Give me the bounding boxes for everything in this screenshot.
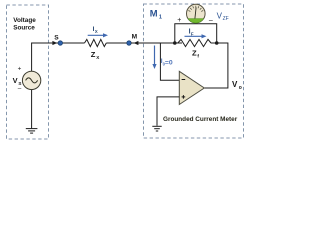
svg-text:F: F: [191, 32, 194, 37]
svg-text:Z: Z: [192, 49, 197, 58]
op-amp U1: [179, 71, 204, 104]
voltage source dashed box: [7, 5, 49, 139]
ground (op-amp): [152, 126, 161, 131]
svg-text:+: +: [177, 17, 181, 24]
ground (source): [26, 129, 38, 134]
svg-text:o: o: [239, 85, 242, 91]
svg-text:ZF: ZF: [223, 16, 229, 22]
svg-text:–: –: [18, 86, 22, 93]
voltage source VS: [22, 71, 40, 89]
wire ZF to output: [204, 43, 228, 88]
svg-text:Voltage: Voltage: [13, 17, 36, 24]
svg-text:f: f: [197, 54, 199, 59]
wire M into meter box: [131, 42, 182, 44]
wire source vertical up to main wire: [32, 43, 85, 71]
svg-text:–: –: [209, 17, 213, 24]
svg-text:1: 1: [159, 14, 162, 20]
svg-text:V: V: [232, 80, 238, 89]
resistor ZX: [85, 39, 107, 46]
svg-text:Z: Z: [91, 50, 96, 59]
current arrow IF: [185, 35, 204, 37]
meter loop wire: [175, 24, 217, 43]
wire branch to inverting input: [160, 43, 179, 80]
resistor ZF: [178, 39, 211, 46]
current arrow IX: [88, 34, 105, 36]
current arrow I0: [154, 46, 156, 66]
svg-text:V: V: [13, 76, 18, 85]
junction right of ZF: [215, 41, 219, 45]
wire ZX to node M: [106, 42, 129, 44]
svg-text:S: S: [54, 35, 59, 42]
arrowhead into node M: [134, 41, 139, 45]
svg-text:=0: =0: [165, 59, 173, 66]
svg-text:M: M: [150, 8, 158, 19]
panel meter VZF: [187, 4, 206, 23]
svg-text:X: X: [95, 29, 98, 34]
svg-text:+: +: [18, 65, 22, 72]
node S: [58, 41, 62, 45]
svg-text:M: M: [132, 34, 138, 41]
wire source to ground: [31, 90, 33, 129]
junction left of ZF: [173, 41, 177, 45]
grounded current meter dashed box M1: [144, 4, 244, 138]
svg-text:X: X: [96, 55, 100, 60]
svg-text:Grounded Current Meter: Grounded Current Meter: [163, 116, 238, 123]
node M: [127, 41, 131, 45]
arrowhead into node S: [52, 41, 57, 45]
wire noninverting input to ground: [157, 97, 179, 126]
svg-text:Source: Source: [13, 24, 35, 31]
